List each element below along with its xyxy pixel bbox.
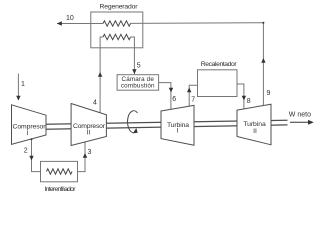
- wire state 8: reheater right down to turbine II inlet: [237, 84, 244, 109]
- svg-text:Interenfriador: Interenfriador: [45, 186, 77, 193]
- arrowhead state 3 (up): [83, 153, 87, 158]
- svg-text:3: 3: [88, 149, 92, 156]
- wire hot-side left to state 10 arrow: [57, 23, 103, 25]
- wire state 5: regenerator cold outlet down to combustor: [131, 37, 135, 74]
- combustion chamber box: [117, 75, 159, 91]
- svg-text:Turbina: Turbina: [243, 121, 266, 128]
- svg-text:2: 2: [24, 148, 28, 155]
- svg-text:1: 1: [21, 81, 25, 88]
- svg-text:4: 4: [93, 100, 97, 107]
- regenerator box: [91, 12, 143, 48]
- wire state 2: compressor I down to intercooler: [32, 139, 41, 172]
- node junction dot at state 2 tap: [31, 138, 33, 140]
- wire state 6: combustor right to turbine I inlet: [159, 83, 171, 110]
- wire hot-side right, across top, down to turbine II: [131, 23, 264, 106]
- turbine II body: [237, 104, 271, 145]
- svg-text:combustión: combustión: [121, 82, 155, 89]
- svg-text:Recalentador: Recalentador: [201, 61, 238, 68]
- svg-text:W neto: W neto: [289, 112, 311, 119]
- shaft line upper (slightly sloped, continuous under bodies): [46, 120, 288, 124]
- svg-text:5: 5: [137, 62, 141, 69]
- svg-text:8: 8: [247, 98, 251, 105]
- svg-text:9: 9: [267, 90, 271, 97]
- arrowhead state 5 (down): [132, 69, 136, 74]
- arrowhead state 2 (down): [29, 156, 33, 161]
- shaft line lower: [46, 125, 288, 129]
- svg-text:7: 7: [191, 97, 195, 104]
- arrowhead rotation arc (up): [133, 128, 138, 133]
- turbine I body: [161, 105, 194, 145]
- svg-text:II: II: [253, 128, 257, 135]
- svg-text:I: I: [177, 127, 179, 134]
- arrowhead state 4 (up): [98, 72, 102, 77]
- intercooler box: [41, 161, 78, 181]
- svg-text:10: 10: [66, 15, 74, 22]
- node junction dot at top-right corner: [262, 22, 264, 24]
- heat-exchanger zigzag regenerator cold side: [103, 34, 131, 39]
- wire state 4: compressor II top up to regenerator cold inlet: [100, 37, 103, 113]
- heat-exchanger zigzag intercooler: [47, 169, 73, 174]
- arrowhead state 6 (down): [169, 88, 173, 93]
- compressor I body: [12, 105, 47, 145]
- wire state 1: air inlet down into compressor I: [17, 74, 19, 100]
- arrowhead W neto (right): [308, 120, 314, 125]
- compressor II body: [71, 104, 106, 146]
- shaft rotation arc: [128, 111, 138, 133]
- svg-text:I: I: [27, 130, 29, 137]
- arrowhead state 8 (down): [242, 96, 246, 101]
- svg-text:II: II: [87, 130, 91, 137]
- arrowhead state 10 (left): [57, 21, 62, 25]
- wire state 3: intercooler up to compressor II: [78, 142, 86, 172]
- svg-text:Regenerador: Regenerador: [100, 3, 139, 10]
- W neto arrow shaft: [290, 121, 311, 123]
- svg-text:6: 6: [172, 96, 176, 103]
- heat-exchanger zigzag regenerator hot side: [103, 21, 131, 26]
- reheater box: [198, 70, 238, 97]
- svg-text:Compresor: Compresor: [13, 123, 47, 130]
- arrowhead state 1 (down): [16, 96, 20, 101]
- wire state 7: turbine I exit up to reheater: [189, 85, 197, 106]
- arrowhead state 9 (up): [261, 58, 265, 63]
- arrowhead state 7 (up): [187, 88, 191, 93]
